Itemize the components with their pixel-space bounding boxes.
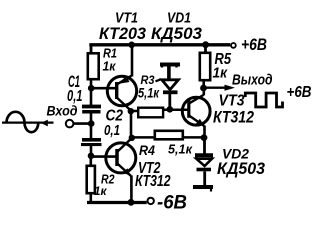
resistor R1: [88, 53, 99, 79]
wire: VT3 emitter down: [203, 126, 206, 141]
output arrow: [204, 87, 227, 89]
top +6V rail: [89, 43, 230, 46]
sine wave input symbol: [2, 112, 54, 132]
node VT2 emitter on rail: [128, 199, 135, 206]
node VT1 base junction: [88, 85, 95, 92]
capacitor C1: [82, 105, 101, 109]
node R3/VD1 junction: [167, 106, 174, 113]
wire: R1 bottom to base node: [90, 79, 93, 90]
wire: base node down to C1: [90, 88, 93, 105]
svg-text:КД503: КД503: [217, 159, 266, 178]
transistor VT3 (KT312, NPN): [182, 95, 210, 126]
svg-text:5,1к: 5,1к: [138, 86, 160, 101]
svg-text:Выход: Выход: [232, 72, 273, 89]
capacitor C2: [82, 138, 101, 142]
svg-text:1к: 1к: [103, 60, 117, 74]
svg-text:КД503: КД503: [151, 24, 203, 43]
wire: collector column VT1-VT2: [130, 110, 133, 138]
svg-text:1к: 1к: [213, 65, 229, 82]
-6V terminal: [148, 198, 154, 204]
svg-text:1к: 1к: [94, 186, 108, 198]
svg-text:VТ3: VТ3: [219, 92, 245, 109]
wire: rail corner down to R1: [90, 44, 93, 54]
wire: VT1 emitter to top rail: [131, 45, 134, 77]
svg-text:-6В: -6В: [157, 193, 187, 214]
wire: node to R2: [90, 156, 93, 165]
svg-text:+6В: +6В: [287, 84, 312, 101]
wire: VT2 emitter to bottom rail: [130, 176, 133, 203]
bottom -6V rail: [87, 201, 147, 204]
wire: R2 to bottom rail: [90, 193, 93, 203]
square wave output symbol: [245, 93, 282, 107]
svg-text:R4: R4: [139, 142, 155, 158]
node VT1 collector junction: [128, 108, 134, 114]
svg-text:КТ312: КТ312: [135, 173, 171, 190]
transistor VT1 (KT203, PNP): [107, 76, 136, 111]
resistor R5: [204, 43, 207, 52]
diode VD2 (KD503): [193, 139, 213, 192]
svg-text:КТ312: КТ312: [213, 109, 254, 127]
node VT2 base junction: [88, 153, 95, 160]
node VT3 emitter/R4 junction: [201, 134, 208, 141]
stray mark left of VD1: [156, 79, 162, 81]
wire: input terminal to node: [73, 122, 91, 125]
svg-text:КТ203: КТ203: [99, 24, 147, 43]
input terminal: [66, 120, 74, 128]
wire: VT1 base: [91, 87, 116, 90]
node R5 on rail: [202, 41, 209, 48]
wire: VT3 collector up: [203, 89, 206, 95]
transistor VT2 (KT312, NPN): [106, 138, 136, 176]
node VT3 collector/R5 junction: [200, 85, 207, 92]
svg-text:5,1к: 5,1к: [168, 143, 193, 157]
svg-text:С2: С2: [106, 107, 124, 124]
svg-text:+6В: +6В: [241, 36, 267, 54]
svg-text:R1: R1: [103, 47, 117, 61]
node VT2 collector junction: [129, 135, 135, 141]
wire: input node to C2: [90, 124, 93, 139]
wire: VT2 base: [91, 155, 116, 158]
wire: C1 to input node: [90, 113, 93, 124]
node input junction: [88, 120, 95, 127]
+6V terminal: [231, 43, 236, 48]
resistor R2: [87, 166, 95, 193]
svg-text:R2: R2: [101, 172, 115, 187]
node VT1 emitter on rail: [128, 42, 135, 49]
svg-text:Вход: Вход: [47, 103, 78, 119]
diode VD1 (KD503): [160, 65, 180, 110]
wire: C2 to VT2 base node: [90, 146, 93, 158]
resistor R4: [132, 136, 154, 139]
resistor R3: [131, 110, 138, 113]
svg-text:0,1: 0,1: [104, 123, 120, 139]
